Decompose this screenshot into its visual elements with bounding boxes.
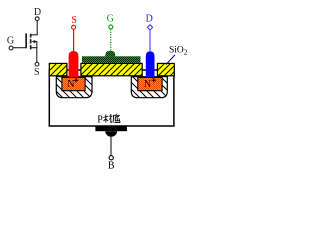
P substrate box — [49, 70, 174, 126]
terminal circle B — [109, 156, 113, 160]
leader line to oxide — [166, 55, 175, 65]
svg-text:S: S — [71, 15, 77, 26]
drain electrode (blue) — [146, 51, 155, 77]
substrate arrow — [32, 40, 36, 43]
svg-text:SiO2: SiO2 — [169, 46, 188, 57]
gate electrode (green, poly) — [82, 56, 141, 63]
terminal circle G — [9, 46, 13, 50]
channel segment (middle / substrate) — [30, 39, 32, 43]
terminal circle S (red) — [72, 25, 76, 29]
left P-well hatched region — [56, 77, 92, 98]
wire: drain lead — [31, 21, 38, 35]
body contact bump — [105, 131, 117, 137]
svg-text:N: N — [144, 79, 151, 90]
gate lead (dashed green) — [110, 29, 112, 51]
gate bar — [25, 34, 27, 49]
svg-text:D: D — [34, 7, 41, 18]
terminal diamond D (blue) — [147, 25, 152, 30]
SiO2 layer segment middle — [81, 63, 142, 75]
right P-well hatched region — [131, 77, 167, 98]
wire: source lead — [31, 48, 37, 63]
svg-text:B: B — [108, 161, 115, 172]
wire: body lead — [110, 137, 112, 156]
svg-text:G: G — [7, 36, 14, 47]
CJK char 衬 (hand-drawn strokes) — [103, 114, 112, 123]
right N+ diffusion — [138, 78, 162, 91]
svg-text:D: D — [146, 14, 153, 25]
svg-text:G: G — [107, 14, 114, 25]
terminal circle D — [35, 17, 39, 21]
terminal circle G (green) — [109, 25, 113, 29]
gate contact dome — [105, 51, 115, 57]
source lead (red) — [73, 30, 75, 52]
channel segment (source side) — [30, 45, 32, 49]
SiO2 layer segment left — [49, 63, 67, 75]
channel segment (drain side) — [30, 34, 32, 38]
svg-text:N: N — [67, 79, 74, 90]
svg-text:P: P — [97, 115, 103, 126]
svg-text:S: S — [34, 67, 40, 78]
wire: gate lead — [13, 47, 26, 49]
body contact bar (black) — [95, 126, 127, 131]
SiO2 layer segment right — [157, 63, 174, 75]
drain lead (blue) — [149, 30, 151, 52]
terminal circle S — [35, 62, 39, 66]
source electrode (red) — [69, 51, 79, 78]
CJK char 底 (hand-drawn strokes) — [113, 114, 120, 123]
left N+ diffusion — [62, 78, 85, 91]
